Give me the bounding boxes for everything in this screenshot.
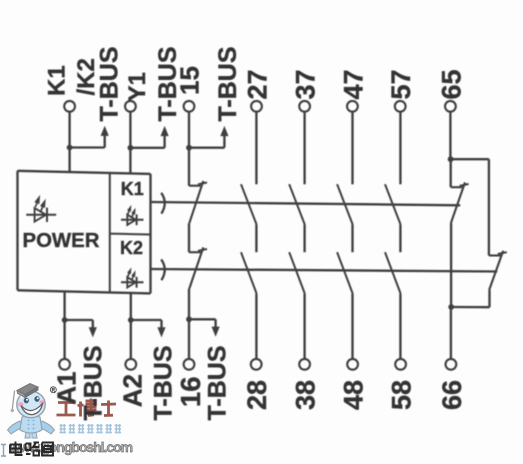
terminal 66 circle [446, 359, 457, 370]
T-BUS arrow 1 (up) [104, 136, 106, 148]
terminal 37 circle [299, 101, 310, 112]
terminal 48 circle [347, 359, 358, 370]
wire 15/16 mid [188, 223, 190, 252]
contact column 57/58 (NO, K1+K2 in series) [399, 112, 401, 185]
junction node 65 top [448, 156, 454, 162]
wire 15/16 to junction [188, 289, 190, 320]
svg-text:POWER: POWER [22, 230, 99, 252]
divider between POWER and K column [109, 173, 111, 293]
svg-text:48: 48 [339, 380, 369, 410]
terminal A2 circle [125, 359, 136, 370]
svg-text:16: 16 [175, 377, 206, 408]
wire right branch bottom [488, 290, 490, 307]
wire 65 terminal down [449, 112, 451, 160]
wire box to A2 terminal [130, 293, 132, 359]
svg-text:A1: A1 [52, 372, 82, 405]
svg-text:K1: K1 [121, 179, 144, 199]
terminal K1 circle [64, 101, 75, 112]
power LED indicator [26, 214, 56, 216]
terminal A1 circle [59, 359, 70, 370]
svg-text:28: 28 [242, 380, 272, 410]
junction node Y1/T-BUS [127, 145, 133, 151]
wire 65 branch right [451, 158, 489, 160]
power supply box outline [18, 171, 151, 174]
svg-text:27: 27 [242, 69, 272, 99]
terminal 57 circle [395, 101, 406, 112]
T-BUS arrow 6 (down) [214, 319, 216, 327]
junction node K1/T-BUS [67, 145, 73, 151]
terminal Y1 circle [125, 101, 136, 112]
wire junction to T-BUS arrow 4 [65, 319, 93, 321]
T-BUS arrow 4 (down) [92, 320, 94, 328]
contact column 47/48 (NO, K1+K2 in series) [351, 112, 353, 185]
svg-text:65: 65 [436, 69, 466, 99]
watermark company name strokes [57, 399, 117, 417]
svg-text:T-BUS: T-BUS [214, 47, 242, 122]
svg-text:37: 37 [291, 69, 321, 99]
hop arc on K2 line [161, 259, 165, 280]
svg-text:38: 38 [291, 380, 321, 410]
caption strokes (circuit-diagram text) [10, 442, 53, 456]
wire Y1 terminal to box [129, 112, 131, 174]
svg-text:57: 57 [386, 69, 416, 99]
contact column 27/28 (NO, K1+K2 in series) [255, 112, 257, 185]
watermark slogan strokes [60, 424, 122, 434]
wire junction to 16 terminal [188, 319, 190, 359]
hop arc on K1 line [161, 193, 165, 214]
svg-text:K2: K2 [120, 238, 143, 258]
wire right branch down [488, 159, 490, 255]
junction node A2/T-BUS [128, 317, 134, 323]
terminal 47 circle [347, 101, 358, 112]
T-BUS arrow 3 (up) [223, 136, 225, 148]
svg-text:T-BUS: T-BUS [96, 47, 124, 122]
terminal 38 circle [299, 359, 310, 370]
terminal 58 circle [395, 359, 406, 370]
K2 actuation line [151, 269, 498, 272]
contact 65/66 left (K1, NC) [450, 159, 452, 187]
terminal 27 circle [251, 101, 262, 112]
terminal 28 circle [251, 359, 262, 370]
svg-text:58: 58 [387, 380, 417, 410]
svg-text:Y1: Y1 [124, 72, 151, 101]
divider between K1 and K2 cells [110, 233, 151, 236]
svg-text:T-BUS: T-BUS [150, 346, 178, 421]
T-BUS arrow 5 (down) [160, 320, 162, 328]
svg-text:47: 47 [338, 69, 368, 99]
svg-text:www.gongboshi.com: www.gongboshi.com [9, 439, 133, 455]
svg-text:A2: A2 [117, 374, 147, 407]
contact 15/16 lower (K2, NC) [189, 251, 201, 253]
T-BUS arrow 2 (up) [163, 136, 165, 148]
terminal 15 circle [184, 101, 195, 112]
terminal 16 circle [184, 359, 195, 370]
terminal 65 circle [445, 101, 456, 112]
svg-text:15: 15 [175, 66, 205, 95]
watermark mascot logo [8, 384, 55, 439]
wire junction to T-BUS arrow 3 [189, 147, 224, 149]
junction node 66 bottom [448, 304, 454, 310]
junction node A1/T-BUS [62, 317, 68, 323]
contact 15/16 upper (K1, NC) [189, 185, 201, 187]
relay K2 LED [121, 281, 144, 283]
wire junction to T-BUS arrow 5 [131, 319, 162, 321]
svg-text:66: 66 [437, 380, 467, 410]
svg-text:K1: K1 [44, 65, 71, 96]
K1 actuation line [151, 202, 461, 205]
wire junction to T-BUS arrow 1 [70, 146, 105, 148]
wire 15 terminal down [188, 112, 190, 186]
wire junction to 66 terminal [450, 307, 452, 359]
svg-text:T-BUS: T-BUS [80, 346, 108, 421]
svg-text:T-BUS: T-BUS [204, 346, 232, 421]
contact column 37/38 (NO, K1+K2 in series) [303, 112, 305, 185]
wire 65/66 left down [450, 223, 452, 307]
junction node 16/T-BUS [186, 316, 192, 322]
relay K1 LED [121, 219, 144, 221]
wire right branch return [451, 306, 489, 309]
wire junction to T-BUS arrow 6 [189, 318, 216, 320]
wire box to A1 terminal [63, 291, 65, 359]
wire junction to T-BUS arrow 2 [130, 147, 164, 149]
caption blue edge fragment [1, 445, 6, 457]
contact 65/66 right (K2, NC) [489, 254, 501, 256]
wire K1 terminal to box [68, 112, 70, 172]
junction node 15/T-BUS [186, 145, 192, 151]
